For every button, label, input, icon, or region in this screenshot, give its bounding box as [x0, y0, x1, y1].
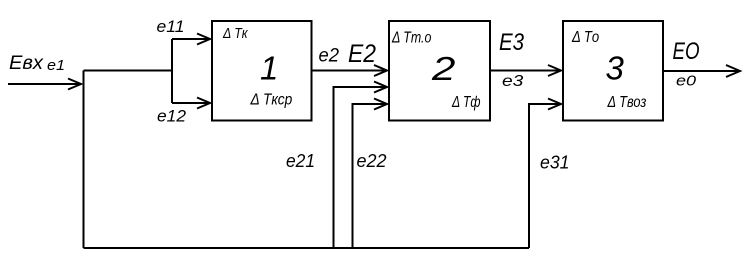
- arrowhead: e21 into block 2: [374, 82, 387, 93]
- arrowhead: output EO: [726, 65, 740, 77]
- arrowhead: input into junction: [68, 79, 81, 90]
- block 3 rectangle: [563, 21, 663, 121]
- svg-text:Δ Tвоз: Δ Tвоз: [607, 94, 647, 111]
- wire: junction vertical to feedforward bus: [83, 71, 85, 249]
- arrowhead: e12 into block 1: [197, 98, 210, 109]
- wire: e22 feedback vertical and horizontal: [353, 104, 387, 248]
- wire: branch vertical e11/e12: [171, 39, 173, 103]
- block 1 rectangle: [212, 21, 312, 121]
- arrowhead: e11 into block 1: [197, 34, 210, 45]
- wire: E3 line block2 to block3: [490, 70, 560, 72]
- wire: junction horizontal toward branch: [84, 70, 174, 72]
- svg-text:e3: e3: [502, 73, 523, 90]
- wire: bottom feedforward bus: [84, 247, 530, 249]
- arrowhead: E3 into block 3: [548, 65, 561, 76]
- svg-text:e21: e21: [286, 150, 315, 171]
- svg-text:EO: EO: [673, 38, 700, 65]
- wire: output line EO: [663, 70, 739, 72]
- svg-text:e11: e11: [157, 17, 185, 36]
- arrowhead: E2 into block 2: [374, 65, 387, 76]
- svg-text:e0: e0: [676, 73, 697, 90]
- wire: e12 line into block 1: [172, 102, 209, 104]
- svg-text:Δ Tф: Δ Tф: [451, 94, 480, 111]
- arrowhead: e22 into block 2: [374, 99, 387, 110]
- svg-text:e12: e12: [157, 107, 187, 126]
- svg-text:E2: E2: [348, 40, 376, 68]
- wire: e2/E2 line block1 to block2: [312, 70, 387, 72]
- svg-text:3: 3: [606, 50, 625, 87]
- svg-text:1: 1: [260, 50, 278, 87]
- svg-text:Eвх: Eвх: [9, 53, 45, 74]
- arrowhead: e31 into block 3: [548, 99, 561, 110]
- wire: input arrow line Eвх: [8, 83, 80, 85]
- wire: e31 feedback vertical and horizontal: [529, 104, 560, 248]
- svg-text:e2: e2: [319, 46, 340, 67]
- wire: e11 line into block 1: [172, 38, 209, 40]
- wire: e21 feedback vertical and horizontal: [334, 87, 387, 248]
- block 2 rectangle: [389, 21, 490, 121]
- svg-text:Δ Tкср: Δ Tкср: [250, 92, 293, 109]
- svg-text:e22: e22: [357, 150, 388, 171]
- svg-text:Δ Tо: Δ Tо: [571, 29, 599, 46]
- svg-text:e1: e1: [47, 58, 65, 74]
- svg-text:E3: E3: [499, 29, 525, 56]
- svg-text:e31: e31: [540, 152, 570, 173]
- svg-text:2: 2: [431, 50, 456, 87]
- svg-text:Δ Tк: Δ Tк: [222, 25, 248, 42]
- svg-text:Δ Tт.о: Δ Tт.о: [391, 30, 431, 47]
